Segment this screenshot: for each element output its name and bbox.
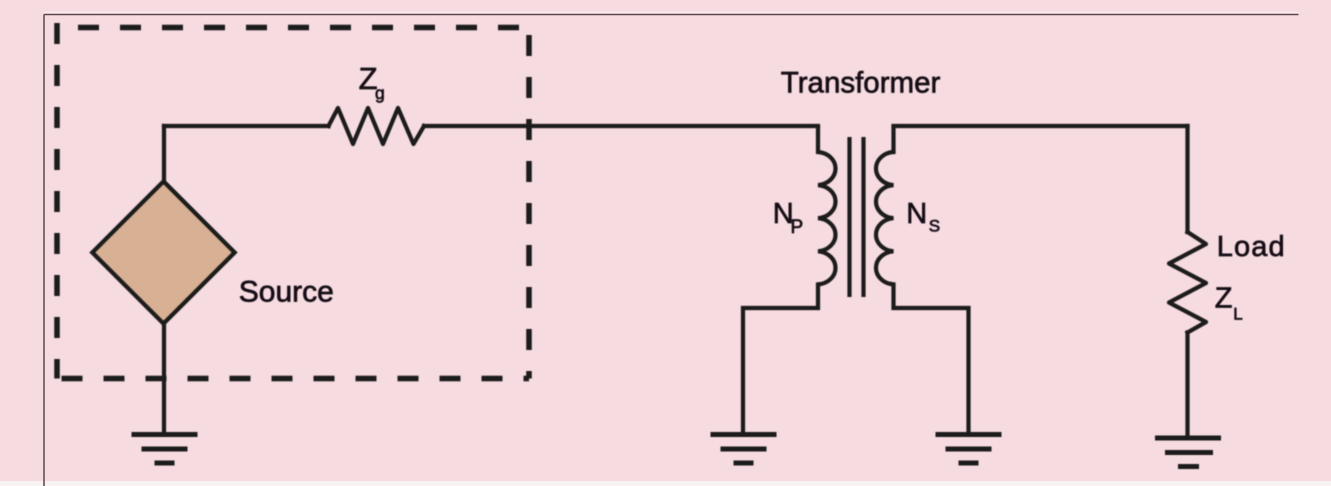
source diamond bbox=[93, 182, 235, 324]
dashed source box top bbox=[57, 25, 529, 31]
svg-text:N: N bbox=[906, 198, 927, 230]
wire: vertical down to load resistor bbox=[1185, 126, 1189, 232]
svg-text:P: P bbox=[791, 217, 804, 238]
transformer primary winding Np bbox=[743, 126, 836, 433]
wire: vertical from top wire down to source diamond bbox=[162, 126, 166, 182]
wire: source diamond bottom to ground bbox=[162, 323, 166, 433]
resistor ZL zigzag (vertical) bbox=[1169, 232, 1206, 333]
ground (source) bbox=[132, 435, 198, 464]
page frame thin border top bbox=[44, 14, 1299, 16]
svg-text:g: g bbox=[375, 83, 385, 103]
bottom light band bbox=[0, 481, 1331, 486]
page frame thin border left bbox=[43, 15, 45, 486]
transformer secondary winding Ns bbox=[876, 126, 969, 433]
svg-text:Load: Load bbox=[1217, 231, 1286, 263]
wire: Zg to transformer primary bbox=[424, 124, 818, 128]
wire: secondary top horizontal to load bbox=[894, 124, 1188, 128]
svg-text:Z: Z bbox=[1215, 282, 1233, 314]
svg-text:Source: Source bbox=[239, 276, 334, 309]
page frame highlight above border bbox=[44, 12, 1299, 14]
dashed source box left bbox=[54, 23, 60, 379]
svg-text:S: S bbox=[929, 217, 940, 236]
wire: load resistor to ground bbox=[1185, 333, 1189, 437]
transformer core line right bbox=[861, 137, 865, 297]
ground (load) bbox=[1155, 438, 1221, 467]
dashed source box bottom bbox=[57, 376, 529, 382]
ground (transformer primary) bbox=[711, 435, 777, 464]
wire: top left horizontal (source to Zg) bbox=[164, 124, 329, 128]
dashed source box right bbox=[526, 28, 532, 379]
transformer core line left bbox=[847, 137, 851, 297]
ground (transformer secondary) bbox=[936, 435, 1002, 464]
resistor Zg zigzag bbox=[329, 108, 425, 144]
svg-text:Transformer: Transformer bbox=[781, 67, 941, 100]
svg-text:L: L bbox=[1233, 305, 1242, 324]
